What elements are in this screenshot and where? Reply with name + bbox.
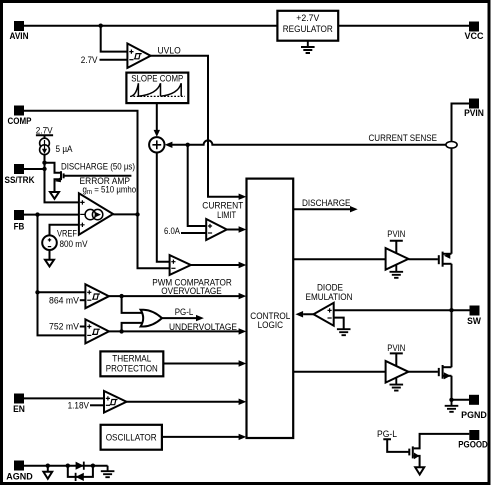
block THERMAL PROTECTION [100,351,163,376]
ground (high-side driver) [390,264,404,277]
svg-text:SLOPE COMP: SLOPE COMP [131,74,183,84]
comparator diode emulation [314,303,334,326]
svg-text:EN: EN [13,404,25,414]
svg-text:PGND: PGND [461,410,487,420]
transistor PGOOD FET [409,434,469,467]
pin SW [467,306,481,326]
junction discharge FET drain [42,161,46,165]
wire diode emulation output to control logic [303,313,313,315]
wire UVLO output to control logic [151,56,239,197]
wire AVIN to VCC rail [24,25,469,27]
wire SW node [334,309,470,311]
wire AGND net [24,465,108,467]
comparator current limit [206,219,227,240]
wire 6.0A to current limit - input [181,232,206,234]
pin AGND [6,461,33,482]
buffer low-side gate driver [386,361,409,383]
wire AVIN to UVLO + input [101,26,128,52]
svg-text:PGOOD: PGOOD [458,440,488,450]
svg-text:752 mV: 752 mV [49,322,79,332]
comparator undervoltage 752 mV [85,319,109,343]
wire oscillator to control logic [162,436,239,438]
current sense element [446,142,457,149]
ground (low-side driver) [390,377,404,390]
wire current sense to current limit + input [188,145,207,226]
block OSCILLATOR [101,425,162,450]
svg-text:COMP: COMP [8,116,32,126]
svg-text:LOGIC: LOGIC [258,320,284,330]
svg-text:PROTECTION: PROTECTION [106,364,158,374]
junction OV output [119,294,123,298]
wire control logic to high-side driver [293,258,385,260]
wire CURRENT SENSE with hop over UVLO line [165,142,173,148]
wire control logic to low-side driver [293,371,385,373]
junction FB rail at OV comparator [35,290,39,294]
junction SW [449,308,453,312]
junction PGND [449,398,453,402]
svg-text:PVIN: PVIN [387,343,405,353]
wire diode clamp lower branch [68,466,93,477]
power tap 2.7V (soft-start source) [36,125,53,138]
wire slope comp to summer [156,103,158,130]
svg-text:VREF: VREF [57,228,77,238]
wire OV output to OR gate [122,296,142,313]
svg-text:6.0A: 6.0A [164,226,180,236]
svg-text:864 mV: 864 mV [49,295,79,305]
svg-text:OVERVOLTAGE: OVERVOLTAGE [161,286,222,296]
junction diode clamp right [91,464,95,468]
wire COMP to PWM comparator - input [24,111,170,268]
wire 864 mV to OV comparator - input [80,299,86,301]
wire soft-start rail to error amp + input [45,155,79,203]
wire UV output to control logic (UNDERVOLTAGE) [109,330,239,332]
pin EN [13,394,25,415]
junction AGND at open ground [46,464,50,468]
ground (AGND earth) [101,466,115,478]
buffer high-side gate driver [386,248,409,270]
comparator UVLO [127,44,150,68]
pin PGOOD [458,430,488,450]
svg-text:SS/TRK: SS/TRK [5,175,35,185]
svg-text:UNDERVOLTAGE: UNDERVOLTAGE [169,322,237,332]
svg-text:PVIN: PVIN [387,229,405,239]
wire EN pin to comparator + input [24,397,104,399]
svg-text:THERMAL: THERMAL [112,354,151,364]
svg-text:AVIN: AVIN [10,31,29,41]
op-amp error amp (gm) [79,193,113,234]
transistor low-side FET [408,365,451,379]
comparator PWM [170,255,191,275]
pin PVIN [464,99,484,119]
svg-text:OSCILLATOR: OSCILLATOR [106,433,157,443]
pin PGND [461,395,487,420]
svg-text:CURRENT SENSE: CURRENT SENSE [369,133,438,143]
wire FB pin to error amp - input [24,214,79,216]
pin COMP [8,106,32,126]
diode D2 (lower) [76,473,84,481]
pin SS/TRK [5,164,35,185]
svg-text:2.7V: 2.7V [81,55,98,65]
transistor high-side FET [408,252,451,267]
svg-text:PG-L: PG-L [175,307,194,317]
wire PWM output to control logic [191,264,239,266]
wire SS/TRK pin [24,168,45,170]
svg-text:SW: SW [467,316,481,326]
block SLOPE COMP [126,73,188,104]
wire PGND [452,399,470,401]
wire DISCHARGE output [293,208,350,210]
power tap PVIN (low-side driver) [387,343,405,366]
ground (PGOOD FET, open triangle) [415,467,424,474]
svg-text:UVLO: UVLO [158,46,181,56]
svg-text:VCC: VCC [465,31,484,41]
wire diode emulation - input to ground [334,318,344,330]
diode D1 (upper) [76,462,84,470]
gate OR (power good) [141,310,162,327]
junction diode clamp left [66,464,70,468]
svg-text:DISCHARGE (50 µs): DISCHARGE (50 µs) [61,161,135,171]
svg-text:2.7V: 2.7V [36,125,53,135]
svg-text:1.18V: 1.18V [68,400,89,410]
current source 5 uA [40,138,50,154]
svg-text:PVIN: PVIN [464,108,484,118]
junction error amp output on COMP rail [135,212,139,216]
wire 2.7V to UVLO - input [100,59,128,61]
signal tap PG-L [383,439,409,452]
ground (diode emulation) [337,329,351,335]
ground (regulator) [301,41,315,53]
svg-text:PG-L: PG-L [377,429,397,439]
svg-text:800 mV: 800 mV [60,239,88,249]
wire current limit output to control logic [227,229,239,231]
svg-text:LIMIT: LIMIT [217,210,236,220]
svg-text:DIODE: DIODE [317,283,343,293]
svg-text:REGULATOR: REGULATOR [283,24,333,34]
pin FB [14,210,25,232]
wire FB rail down to OV/UV comparators [38,215,86,336]
pin VCC [465,22,484,42]
junction current sense branch [186,143,190,147]
junction SS/TRK [42,167,46,171]
wire thermal protection to control logic [163,363,239,365]
block CONTROL LOGIC [247,179,294,438]
wire EN comparator output to control logic [127,401,240,403]
wire summer output to PWM comparator [157,153,170,262]
regulator U1 +2.7V [277,11,338,41]
wire error amp output [113,213,137,215]
svg-text:FB: FB [14,222,25,232]
wire 1.18V to comparator - input [90,404,104,406]
power tap PVIN (high-side driver) [387,229,405,253]
wire UV output to OR gate [122,323,142,332]
source VREF 800 mV [42,225,79,260]
wire OR gate output PG-L [162,317,196,319]
transistor discharge FET [45,163,132,192]
pin AVIN [10,21,29,41]
ground (AGND, open triangle) [43,466,52,479]
junction UV output [119,329,123,333]
wire 752 mV to UV comparator + input [80,326,86,328]
wire PVIN rail [452,104,470,400]
ground (PGND earth) [445,400,459,412]
svg-text:AGND: AGND [6,472,33,482]
svg-text:DISCHARGE: DISCHARGE [302,198,351,208]
ground (discharge FET, open triangle) [50,192,59,199]
ground (VREF, open triangle) [45,260,54,267]
junction FB [35,212,39,216]
summer node [149,137,164,152]
comparator overvoltage 864 mV [85,284,109,308]
comparator EN 1.18V [104,391,127,413]
svg-text:+2.7V: +2.7V [296,13,319,23]
svg-text:5 µA: 5 µA [56,144,73,154]
svg-text:EMULATION: EMULATION [306,292,353,302]
wire OV output to control logic (OVERVOLTAGE) [109,295,239,297]
junction on AVIN rail [99,24,103,28]
